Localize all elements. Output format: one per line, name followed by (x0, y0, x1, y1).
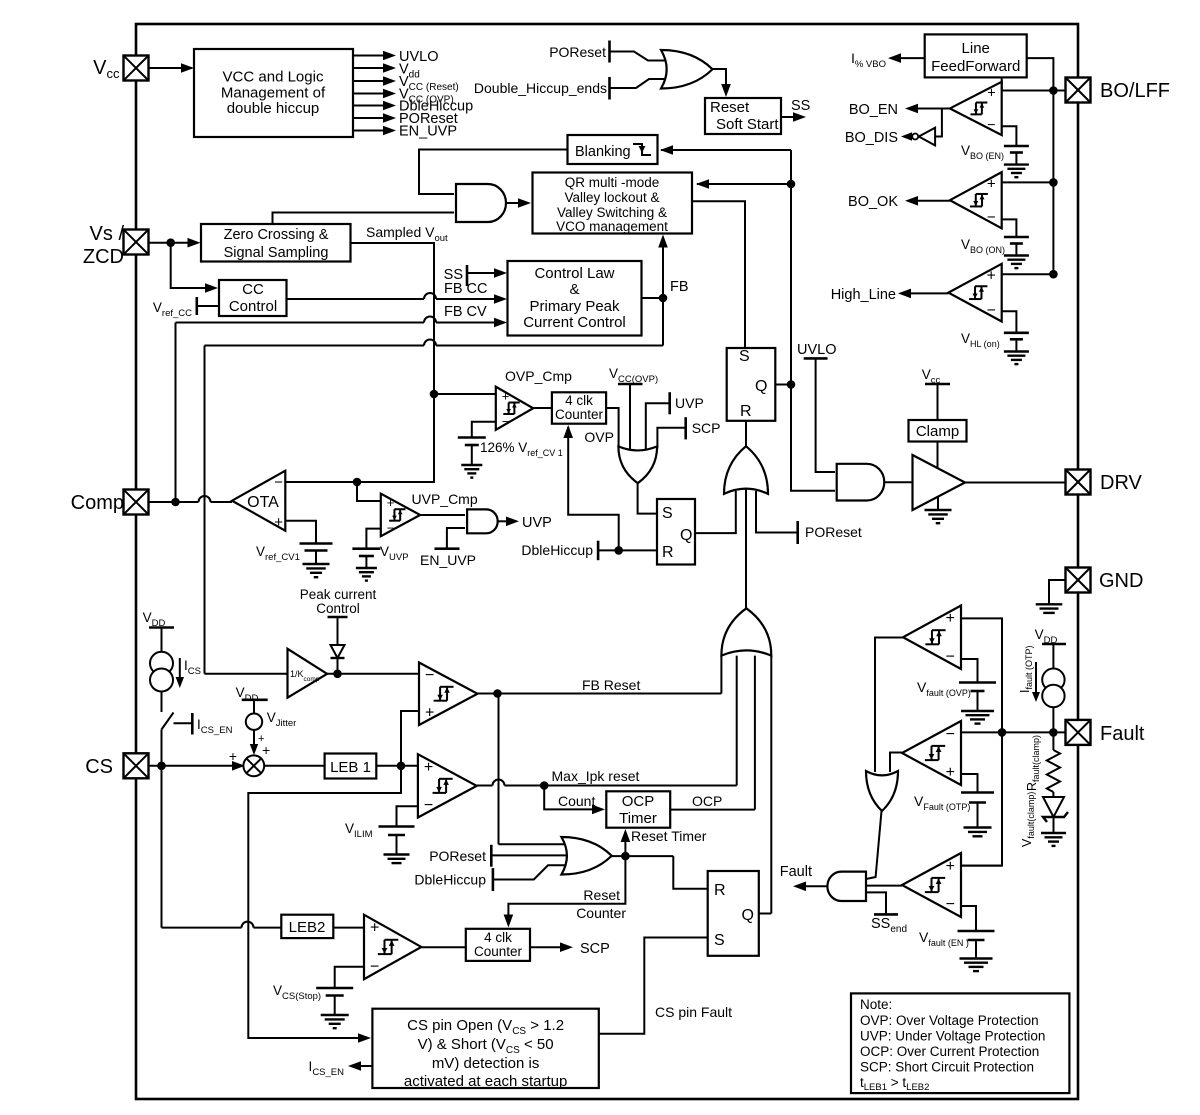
wire faultOR to AND (866, 811, 882, 879)
battery Vref_CV1 (300, 542, 333, 545)
wire sampled Vout bus (285, 243, 434, 482)
terminal Vref_CC (196, 297, 199, 315)
battery VUVP (352, 547, 380, 550)
comparator BO_EN (950, 82, 1002, 135)
buffer 1/Kcomp (288, 649, 328, 698)
svg-text:EN_UVP: EN_UVP (399, 124, 457, 140)
wire OR to latch R (745, 422, 747, 447)
wire Blanking input from latch trunk (661, 149, 791, 151)
wire faultOVP plus bus (961, 618, 1002, 865)
wire CS to LEB2 (161, 766, 163, 928)
wire LFF sense (1001, 77, 1003, 90)
block 4clk counter OVP (552, 392, 606, 423)
svg-text:−: − (387, 521, 395, 536)
wire SCP output (530, 946, 560, 948)
note box (851, 993, 1069, 1093)
block Control Law Primary Peak Current Control (508, 261, 642, 336)
svg-text:Double_Hiccup_ends: Double_Hiccup_ends (474, 80, 607, 96)
svg-text:+: + (987, 267, 996, 284)
svg-text:Clamp: Clamp (916, 423, 959, 440)
svg-text:R: R (740, 403, 752, 420)
block Line FeedForward (925, 34, 1027, 77)
wire fault output (806, 885, 827, 887)
wire switch to CS node (161, 730, 163, 766)
svg-text:Reset: Reset (583, 887, 620, 903)
wire Double_Hiccup_ends to OR (610, 79, 674, 88)
wire CSstop minus (335, 967, 364, 988)
current source ICS (150, 652, 173, 675)
svg-text:−: − (946, 896, 955, 913)
node FB (659, 294, 668, 303)
block CC Control (219, 280, 287, 316)
svg-text:S: S (714, 932, 725, 949)
battery VCS(Stop) (316, 987, 353, 990)
wire VJitter to multiplier (253, 730, 255, 745)
svg-text:4 clk: 4 clk (565, 393, 593, 408)
wire multiplier to LEB1 (264, 765, 324, 767)
wire faultOVP out (875, 638, 903, 773)
wire I%VBO (901, 57, 925, 59)
latch CS fault RS (708, 871, 759, 956)
svg-text:Control: Control (316, 601, 360, 616)
wire BO_OK output (918, 200, 950, 202)
ground VILIM (396, 835, 398, 855)
node Max_Ipk count (540, 781, 549, 790)
wire OR to Reset Soft Start box (713, 69, 727, 84)
svg-text:Max_Ipk reset: Max_Ipk reset (552, 768, 640, 784)
svg-text:CC: CC (242, 281, 264, 298)
svg-text:Control Law: Control Law (534, 265, 614, 282)
wire Blanking left to AND gate (419, 150, 568, 195)
svg-text:+: + (258, 733, 264, 745)
svg-text:R: R (714, 882, 726, 899)
wire OCP to fault OR (754, 656, 756, 810)
wire BO pin to trunk (1053, 90, 1065, 92)
terminal VDD fault (1042, 643, 1066, 646)
wire BO_EN minus (1002, 126, 1017, 146)
svg-text:DbleHiccup: DbleHiccup (414, 872, 486, 888)
pin Comp (124, 490, 149, 515)
node BO-OK (1049, 178, 1058, 187)
diode peak current (331, 645, 345, 658)
wire faultEN minus (961, 906, 976, 931)
wire GND to ground (1049, 580, 1066, 604)
wire BO_OK plus (1002, 181, 1054, 183)
node FB Reset (493, 689, 502, 698)
svg-text:Control: Control (229, 298, 277, 315)
wire protection OR to hiccup latch S (638, 483, 656, 513)
svg-text:Counter: Counter (555, 407, 604, 422)
svg-text:ZCD: ZCD (83, 246, 124, 268)
block Reset Soft Start (705, 98, 781, 134)
wire driver to DRV pin (965, 482, 1066, 484)
latch hiccup SR (657, 499, 695, 565)
ground VHL(on) (1015, 339, 1017, 351)
ground VBO(EN) (1015, 153, 1017, 165)
comparator UVP_Cmp (381, 494, 420, 537)
wire QR output to latch S (692, 201, 745, 347)
svg-text:FeedForward: FeedForward (931, 58, 1020, 75)
svg-text:+: + (946, 764, 955, 781)
svg-text:4 clk: 4 clk (484, 930, 512, 945)
wire Ifault to fault node (1052, 707, 1054, 732)
node ZCD (166, 238, 175, 247)
wire PWM Q to trunk (775, 384, 791, 386)
terminal Vcc clamp (925, 383, 950, 386)
svg-text:Current Control: Current Control (523, 314, 626, 331)
battery VHL(on) (1004, 331, 1029, 334)
svg-text:QR multi -mode: QR multi -mode (565, 175, 660, 190)
svg-text:Q: Q (742, 907, 754, 924)
wire VCC block output (353, 117, 383, 119)
svg-text:SCP: Short Circuit Protection: SCP: Short Circuit Protection (860, 1060, 1034, 1075)
wire FBreset to fault OR (720, 656, 722, 694)
comparator fault OTP (902, 721, 961, 785)
terminal Double_Hiccup_ends (608, 77, 611, 100)
svg-text:−: − (946, 648, 955, 665)
ground VCS(Stop) (334, 996, 336, 1016)
wire OVP out to counter (533, 407, 552, 409)
wire Max_Ipk reset line (477, 785, 493, 787)
wire FBreset plus to LEB1 (401, 711, 419, 766)
comparator FB reset (419, 663, 478, 726)
source VJitter (246, 714, 262, 730)
wire BO_EN plus (1002, 90, 1054, 92)
wire CSstop to counter (421, 946, 466, 948)
svg-text:UVLO: UVLO (797, 342, 837, 358)
wire faultOTP plus (961, 774, 978, 793)
svg-text:+: + (502, 388, 510, 403)
node Comp (171, 498, 180, 507)
svg-text:Management of: Management of (221, 85, 326, 102)
ground VUVP (365, 556, 367, 568)
svg-text:DbleHiccup: DbleHiccup (521, 542, 593, 558)
block Zero Crossing Signal Sampling (201, 224, 351, 262)
ground 126% Vref_CV1 (471, 445, 473, 465)
multiplier jitter (243, 755, 264, 776)
svg-text:Q: Q (755, 378, 767, 395)
wire CS pin fault to S (599, 938, 708, 1034)
node Kcomp out (333, 670, 342, 679)
wire hiccup Q to big OR (695, 491, 736, 533)
wire ICS_EN out (361, 1065, 372, 1067)
wire sampled to UVP cmp (357, 482, 381, 501)
terminal DbleHiccup timer (492, 868, 495, 891)
svg-text:LEB2: LEB2 (289, 919, 326, 936)
node CS (157, 762, 166, 771)
svg-text:−: − (370, 958, 379, 975)
node sampled-OVP (430, 390, 439, 399)
svg-text:EN_UVP: EN_UVP (420, 552, 476, 568)
svg-text:S: S (739, 348, 750, 365)
wire BO_OK minus (1002, 219, 1017, 237)
wire resetOR output (612, 855, 674, 857)
label ICS (179, 658, 181, 678)
wire faultOVP minus (961, 659, 978, 683)
node BO-HL (1049, 270, 1058, 279)
wire MaxIpk minus to VILIM (397, 806, 418, 826)
svg-text:R: R (662, 544, 674, 561)
svg-text:−: − (987, 302, 996, 319)
block QR multi-mode valley (533, 173, 693, 234)
node trunk-Q (787, 380, 796, 389)
comparator High_Line (948, 264, 1001, 322)
svg-text:+: + (370, 920, 379, 937)
svg-text:BO_OK: BO_OK (848, 194, 898, 210)
svg-text:+: + (946, 858, 955, 875)
svg-text:+: + (229, 748, 237, 764)
wire CSlatch Q out (759, 913, 772, 915)
OR gate protection (618, 446, 657, 483)
terminal POReset (608, 41, 611, 63)
wire Comp up to FB_CV (175, 323, 177, 503)
zener Vfault(clamp) (1043, 797, 1064, 817)
wire DbleHiccup to counter reset (568, 427, 619, 550)
wire UVP output (498, 520, 506, 522)
wire QR input from latch trunk (697, 183, 791, 185)
wire OCP output (670, 809, 755, 811)
wire FB output (642, 297, 664, 299)
svg-text:CS: CS (85, 756, 113, 778)
svg-text:Valley lockout &: Valley lockout & (564, 190, 659, 205)
block VCC and Logic Management (194, 49, 353, 137)
wire faultEN out (866, 885, 902, 887)
terminal VDD ICS (149, 626, 174, 629)
svg-text:VCO management: VCO management (556, 219, 668, 234)
wire High_Line minus (1002, 311, 1017, 333)
terminal UVP protect (668, 392, 671, 414)
terminal POReset latch (796, 521, 799, 544)
wire Comp pin to OTA (149, 501, 199, 503)
svg-text:Comp: Comp (71, 492, 124, 514)
op-amp OTA (232, 471, 285, 531)
node DbleHiccup (614, 546, 623, 555)
wire DbleHiccup to latch R (598, 549, 657, 551)
svg-text:Timer: Timer (619, 810, 657, 827)
svg-text:OTA: OTA (247, 494, 279, 511)
svg-text:High_Line: High_Line (831, 287, 896, 303)
svg-text:OVP: OVP (584, 429, 614, 445)
svg-text:Valley Switching &: Valley Switching & (557, 205, 667, 220)
wire faultEN plus (961, 865, 1002, 867)
pin GND (1066, 568, 1091, 593)
wire CSfault Q to fault OR (770, 656, 772, 914)
ground Vfault(EN) (975, 940, 977, 959)
battery VBO(EN) (1004, 145, 1029, 148)
terminal VDD jitter (242, 698, 268, 701)
pin Vs/ZCD (124, 230, 149, 255)
svg-text:UVP_Cmp: UVP_Cmp (412, 491, 478, 507)
wire LEB2 to comparator (333, 927, 364, 929)
comparator CS stop (364, 915, 421, 980)
battery Vfault(OVP) (959, 681, 996, 684)
wire FB Reset line (478, 693, 722, 695)
svg-text:S: S (662, 505, 673, 522)
svg-text:BO/LFF: BO/LFF (1100, 80, 1170, 102)
OR gate latch reset (724, 446, 768, 494)
svg-text:SCP: SCP (580, 941, 610, 957)
wire SSend to AND (866, 892, 886, 914)
latch PWM SR (727, 348, 776, 421)
svg-text:−: − (502, 414, 510, 429)
svg-text:FB Reset: FB Reset (582, 677, 640, 693)
svg-text:OCP: OCP (692, 793, 722, 809)
OR gate reset-soft-start (661, 50, 713, 89)
comparator fault EN (902, 853, 961, 917)
svg-text:+: + (387, 495, 395, 510)
svg-text:SS: SS (791, 98, 810, 114)
wire LEB1 to OCP comparator (376, 765, 418, 767)
comparator Max_Ipk (418, 754, 477, 817)
terminal ICS_EN (191, 713, 194, 735)
svg-text:Zero Crossing &: Zero Crossing & (224, 227, 329, 243)
svg-text:FB: FB (670, 279, 689, 295)
svg-text:−: − (946, 726, 955, 743)
wire OVP minus to ref (472, 422, 496, 438)
pin VCC (124, 56, 149, 81)
terminal SS control-law (466, 265, 469, 286)
svg-text:CS pin Fault: CS pin Fault (655, 1004, 732, 1020)
AND gate UVP enable (467, 509, 498, 533)
block Blanking (568, 135, 658, 164)
battery Vfault(EN) (958, 930, 995, 933)
svg-text:Counter: Counter (474, 944, 523, 959)
svg-text:POReset: POReset (805, 524, 862, 540)
svg-text:DRV: DRV (1100, 472, 1143, 494)
wire sampled to OVP cmp (434, 393, 496, 395)
ground Vfault(OVP) (977, 691, 979, 711)
svg-text:Count: Count (558, 793, 595, 809)
wire OTA plus to Vref_CV1 (285, 521, 316, 544)
wire UVP minus to VUVP (366, 529, 380, 549)
pin Fault (1066, 720, 1091, 745)
svg-text:GND: GND (1099, 570, 1143, 592)
wire BO_EN output (918, 108, 950, 110)
wire ZCD to CC control (171, 243, 205, 288)
svg-text:+: + (274, 514, 283, 531)
wire counter to OR (606, 408, 619, 448)
node trunk-QR (787, 180, 796, 189)
terminal EN_UVP (435, 547, 460, 550)
svg-text:VCC and Logic: VCC and Logic (223, 69, 324, 86)
wire latch trunk (791, 150, 835, 491)
ground zener (1041, 832, 1066, 834)
terminal SCP protect (684, 417, 687, 439)
wire UVP out to AND (420, 514, 465, 516)
wire resetOR to CSlatch R (673, 856, 707, 889)
terminal POReset timer (490, 845, 493, 867)
wire POReset to resetOR (491, 854, 572, 856)
ground VFault(OTP) (977, 803, 979, 828)
resistor Rfault(clamp) (1052, 732, 1054, 750)
wire VCC block output (353, 105, 383, 107)
ground Vref_CV1 (315, 551, 317, 565)
AND gate fault (827, 872, 866, 901)
svg-text:SCP: SCP (692, 420, 721, 436)
pin DRV (1066, 470, 1091, 495)
wire POReset to OR (610, 52, 674, 61)
node LEB1 out (397, 762, 406, 771)
svg-text:Counter: Counter (576, 905, 626, 921)
comparator fault OVP (903, 606, 961, 670)
svg-text:LEB 1: LEB 1 (330, 759, 371, 776)
svg-text:mV) detection is: mV) detection is (432, 1055, 540, 1072)
block CS pin open detection (372, 1009, 598, 1088)
node reset timer (621, 852, 630, 861)
terminal SSend (874, 913, 898, 916)
wire ZCD sampling to AND gate (273, 213, 455, 226)
inverter BO_DIS (919, 128, 935, 146)
wire VCC block output (353, 80, 383, 82)
svg-text:activated at each startup: activated at each startup (404, 1073, 567, 1090)
node BO-EN (1049, 86, 1058, 95)
current source Ifault (1042, 669, 1064, 691)
svg-text:OCP: Over Current Protection: OCP: Over Current Protection (860, 1044, 1039, 1059)
battery VILIM (379, 825, 415, 828)
node fault bus (998, 728, 1007, 737)
wire High_Line plus (1002, 273, 1054, 275)
svg-text:BO_EN: BO_EN (849, 102, 898, 118)
wire FB_CC (287, 298, 425, 300)
buffer driver (913, 455, 966, 510)
svg-text:POReset: POReset (549, 44, 606, 60)
pin BO/LFF (1066, 78, 1091, 103)
wire Vcc pin to VCC block (149, 67, 193, 69)
wire reset counter (508, 856, 625, 917)
wire BO_EN to inverter (935, 109, 942, 137)
svg-text:UVP: UVP (675, 395, 704, 411)
svg-text:Blanking: Blanking (575, 144, 631, 160)
svg-text:Primary Peak: Primary Peak (529, 298, 620, 315)
pin CS (124, 753, 149, 778)
comparator BO_OK (950, 172, 1002, 228)
svg-text:UVP: Under Voltage Protection: UVP: Under Voltage Protection (860, 1029, 1045, 1044)
wire VCC block output (353, 55, 383, 57)
svg-text:Vs /: Vs / (90, 223, 125, 245)
wire Kcomp out (327, 673, 419, 675)
wire EN_UVP to AND (447, 528, 465, 549)
svg-text:+: + (946, 610, 955, 627)
svg-text:−: − (987, 209, 996, 226)
wire AND to driver (884, 481, 912, 483)
svg-text:Soft Start: Soft Start (716, 116, 779, 133)
svg-text:Fault: Fault (1100, 723, 1145, 745)
node sampled-UVP (353, 478, 362, 487)
block OCP Timer (606, 791, 670, 827)
OR gate reset timer (561, 837, 611, 875)
wire LFF to BO trunk (1027, 58, 1054, 274)
wire FB down to Kcomp (662, 298, 664, 346)
svg-text:OVP: Over Voltage Protection: OVP: Over Voltage Protection (860, 1013, 1039, 1028)
AND gate zero-crossing (456, 184, 506, 222)
wire BO_DIS output (910, 136, 912, 138)
wire FBreset to resetOR (498, 694, 500, 845)
svg-text:Note:: Note: (860, 997, 892, 1012)
svg-text:+: + (424, 759, 433, 776)
wire clamp to driver (937, 442, 939, 469)
svg-text:−: − (274, 474, 283, 491)
ground driver (937, 497, 939, 511)
battery VBO(ON) (1004, 236, 1029, 239)
svg-text:BO_DIS: BO_DIS (845, 130, 898, 146)
wire SS output (781, 116, 794, 118)
wire VCC block output (353, 130, 383, 132)
wire Kcomp in (205, 673, 288, 675)
switch ICS_EN (161, 692, 163, 713)
wire FB up to QR block (662, 241, 664, 298)
OR gate fault summary (721, 608, 771, 655)
svg-text:+: + (425, 705, 434, 722)
